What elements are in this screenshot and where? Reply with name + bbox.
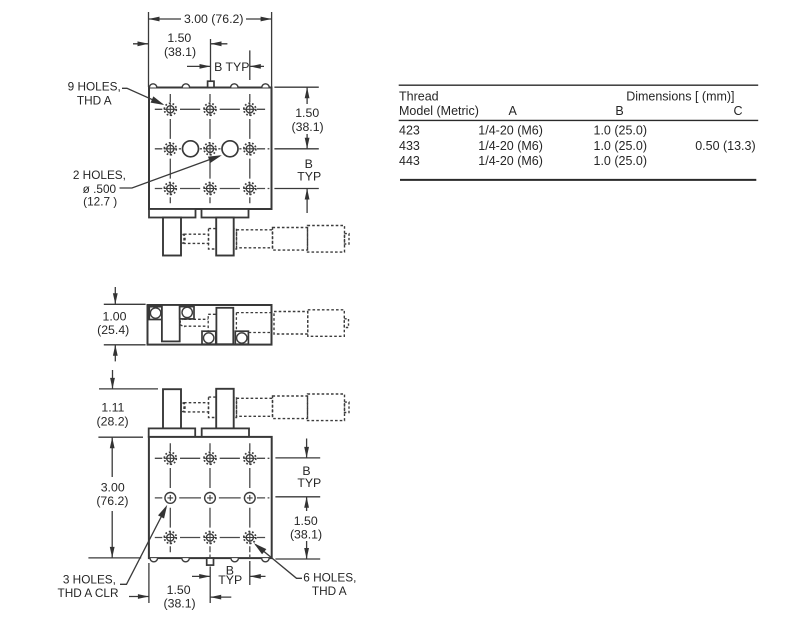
bottom view threaded hole r3c2 <box>203 531 216 544</box>
bottom view carriage step right <box>202 428 249 437</box>
bottom view micrometer spindle (hidden) <box>184 403 209 412</box>
svg-text:1.0 (25.0): 1.0 (25.0) <box>594 124 648 138</box>
top view foot right <box>216 218 234 256</box>
side view bottom-right bearing block <box>235 331 248 344</box>
bottom view micrometer thimble (hidden) <box>308 394 345 421</box>
top view micrometer thimble (hidden) <box>308 226 345 253</box>
top view micrometer end cap (hidden) <box>345 234 350 244</box>
bottom view plate outline <box>149 437 272 558</box>
top view centerline column 2 <box>209 94 211 203</box>
svg-text:(12.7 ): (12.7 ) <box>83 195 117 209</box>
side view bushing hidden rect <box>208 314 216 332</box>
side view micrometer thimble outside <box>308 310 345 337</box>
svg-text:3 HOLES,: 3 HOLES, <box>63 572 116 586</box>
leader 3 HOLES <box>120 508 166 585</box>
svg-text:B: B <box>615 104 623 118</box>
svg-text:THD A CLR: THD A CLR <box>58 586 119 600</box>
bottom view centerline row 1 <box>155 457 270 459</box>
side view micrometer barrel outside <box>274 312 308 335</box>
svg-text:1.50: 1.50 <box>295 106 319 120</box>
svg-text:1.0 (25.0): 1.0 (25.0) <box>594 154 648 168</box>
top view large hole left <box>183 141 199 157</box>
side view second bearing block <box>180 307 194 319</box>
top view centerline column 3 <box>249 94 251 203</box>
top view threaded hole r1c1 <box>164 103 177 116</box>
svg-text:B TYP: B TYP <box>214 60 249 74</box>
svg-text:(38.1): (38.1) <box>292 120 324 134</box>
top view threaded hole r1c2 <box>203 103 216 116</box>
svg-text:1.50: 1.50 <box>167 583 191 597</box>
bottom view micrometer sleeve (hidden) <box>273 396 308 419</box>
top view threaded hole r2c2 <box>203 142 216 155</box>
top view threaded hole r2c1 <box>164 142 177 155</box>
bottom view micrometer flange (hidden) <box>209 397 237 417</box>
svg-text:3.00: 3.00 <box>101 480 125 494</box>
extension line right column up <box>249 50 251 80</box>
side view dimension extension lines <box>104 304 146 345</box>
bottom view locating tab <box>207 558 214 565</box>
bottom view edge bumps <box>150 558 269 562</box>
side view body outline <box>148 305 272 345</box>
dimension 1.50 top-left arrows <box>133 43 227 45</box>
svg-text:1.00: 1.00 <box>103 310 127 324</box>
svg-text:THD A: THD A <box>77 93 112 107</box>
svg-text:(38.1): (38.1) <box>164 45 196 59</box>
top view micrometer flange (hidden) <box>209 229 237 249</box>
svg-text:9 HOLES,: 9 HOLES, <box>68 80 121 94</box>
top view edge bumps <box>149 84 269 88</box>
dimension B TYP right arrow <box>306 189 308 214</box>
svg-text:(38.1): (38.1) <box>290 527 322 541</box>
side view bottom-left bearing ball <box>204 333 214 343</box>
dimension 1.50 right arrows <box>306 87 308 149</box>
bottom view centerline column 3 <box>249 443 251 557</box>
dimension B TYP top arrows <box>187 65 264 67</box>
svg-text:A: A <box>509 104 518 118</box>
extension lines right of top view <box>274 87 318 188</box>
svg-text:Thread: Thread <box>399 90 439 104</box>
bottom view foot left <box>163 389 181 428</box>
bottom view micrometer tip (hidden) <box>180 403 185 412</box>
table bottom rule <box>400 179 756 181</box>
extension line plate left edge up <box>148 12 150 87</box>
svg-text:0.50 (13.3): 0.50 (13.3) <box>695 139 755 153</box>
dimension 1.00 (25.4) arrows <box>114 287 116 361</box>
svg-text:TYP: TYP <box>218 573 242 587</box>
extension line plate left edge down <box>148 563 150 603</box>
svg-text:443: 443 <box>399 154 420 168</box>
extension line plate bottom left <box>88 557 141 559</box>
svg-text:1/4-20 (M6): 1/4-20 (M6) <box>478 139 543 153</box>
dimension B TYP bottom arrows <box>192 575 266 577</box>
top view centerline row 2 <box>155 148 270 150</box>
bottom view carriage step left <box>149 428 196 437</box>
svg-text:423: 423 <box>399 124 420 138</box>
svg-text:1/4-20 (M6): 1/4-20 (M6) <box>478 124 543 138</box>
side view center post <box>216 308 233 344</box>
svg-text:1.0 (25.0): 1.0 (25.0) <box>594 139 648 153</box>
extension line center column up <box>210 39 212 81</box>
svg-text:TYP: TYP <box>297 476 321 490</box>
bottom view centerline row 2 <box>155 497 270 499</box>
extension line feet top left <box>99 388 158 390</box>
side view spindle tip hidden <box>180 319 184 327</box>
top view centerline row 1 <box>155 108 265 110</box>
extension line center column down <box>209 567 211 604</box>
svg-text:2 HOLES,: 2 HOLES, <box>73 168 126 182</box>
side view bottom-right bearing ball <box>237 333 247 343</box>
svg-text:(38.1): (38.1) <box>164 596 196 610</box>
extension line plate top left <box>98 436 143 438</box>
top view micrometer barrel (hidden) <box>237 230 273 248</box>
dimension 3.00 (76.2) line <box>149 18 272 20</box>
top view micrometer tip (hidden) <box>180 235 185 244</box>
top view plate outline <box>149 88 272 210</box>
side view spindle hidden lines <box>184 319 208 326</box>
leader 6 HOLES <box>256 545 303 579</box>
side view left post <box>162 305 180 341</box>
svg-text:(25.4): (25.4) <box>97 323 129 337</box>
bottom view foot right <box>216 389 234 429</box>
dimension 1.11 (28.2) arrow <box>112 370 114 389</box>
bottom view centerline column 2 <box>209 443 211 557</box>
svg-text:1.50: 1.50 <box>294 514 318 528</box>
leader 2 HOLES <box>120 156 220 188</box>
top view threaded hole r3c2 <box>203 182 216 195</box>
bottom view threaded hole r1c2 <box>203 452 216 465</box>
svg-text:THD A: THD A <box>312 584 347 598</box>
top view foot left <box>163 218 181 256</box>
top view micrometer sleeve (hidden) <box>273 228 308 251</box>
top view centerline column 1 <box>169 94 171 203</box>
bottom view threaded hole r3c1 <box>164 531 177 544</box>
dimension 3.00 (76.2) vertical line <box>111 437 113 558</box>
bottom view threaded hole r3c3 <box>243 531 256 544</box>
bottom view clearance hole r2c1 <box>164 492 176 504</box>
dimension B TYP bottom-right arrows <box>306 439 308 512</box>
top view threaded hole r3c3 <box>243 182 256 195</box>
svg-text:6 HOLES,: 6 HOLES, <box>303 570 356 584</box>
svg-text:(28.2): (28.2) <box>97 414 129 428</box>
dimension 1.50 right arrows <box>306 541 308 559</box>
svg-text:Dimensions [ (mm)]: Dimensions [ (mm)] <box>626 90 734 104</box>
table top rule <box>399 84 759 86</box>
table header rule <box>399 119 759 121</box>
top view threaded hole r2c3 <box>243 142 256 155</box>
svg-text:1.11: 1.11 <box>101 400 124 414</box>
svg-text:Model (Metric): Model (Metric) <box>399 104 479 118</box>
bottom view centerline row 3 <box>155 537 265 539</box>
svg-text:1.50: 1.50 <box>167 31 191 45</box>
extension line plate right edge up <box>271 12 273 87</box>
bottom view threaded hole r1c1 <box>164 452 177 465</box>
side view micrometer end cap outside <box>344 319 348 328</box>
svg-text:(76.2): (76.2) <box>96 494 128 508</box>
bottom view threaded hole r1c3 <box>243 452 256 465</box>
dimension 1.50 bottom arrows <box>129 596 231 599</box>
bottom view centerline column 1 <box>169 443 171 552</box>
bottom view clearance hole r2c2 <box>204 492 216 504</box>
svg-text:1/4-20 (M6): 1/4-20 (M6) <box>478 154 543 168</box>
side view left bearing block <box>149 307 162 320</box>
side view second bearing ball <box>182 307 192 317</box>
svg-text:3.00 (76.2): 3.00 (76.2) <box>184 12 243 26</box>
top view threaded hole r1c3 <box>243 103 256 116</box>
top view carriage step right <box>202 209 249 218</box>
bottom view clearance hole r2c3 <box>244 492 256 504</box>
svg-text:TYP: TYP <box>297 170 321 184</box>
side view barrel hidden lines <box>236 313 271 333</box>
extension lines right of bottom view <box>275 458 320 559</box>
top view large hole right <box>222 141 238 157</box>
extension line right column down <box>249 561 251 585</box>
leader 9 HOLES <box>122 88 163 104</box>
side view left bearing ball <box>150 308 160 318</box>
top view threaded hole r3c1 <box>164 182 177 195</box>
top view centerline row 3 <box>155 188 270 190</box>
side view bottom-left bearing block <box>202 331 216 344</box>
svg-text:433: 433 <box>399 139 420 153</box>
top view locating tab <box>208 81 214 87</box>
bottom view micrometer barrel (hidden) <box>237 398 273 416</box>
top view micrometer spindle (hidden) <box>184 234 209 243</box>
top view carriage step left <box>149 209 196 218</box>
bottom view micrometer end cap (hidden) <box>345 402 350 412</box>
svg-text:C: C <box>733 104 742 118</box>
